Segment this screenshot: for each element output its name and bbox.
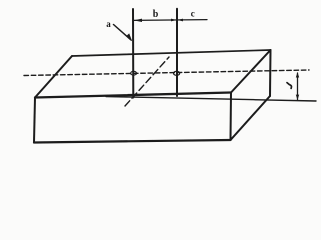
right probe pin: [176, 9, 178, 96]
box right-bottom slant edge: [231, 96, 271, 140]
box right-back vertical edge: [269, 50, 272, 96]
box left slant edge of top face: [35, 56, 72, 98]
extension line of front edge to the right: [106, 97, 316, 102]
box back-top edge: [72, 50, 271, 56]
arrowhead of b at left pin (pointing left): [134, 19, 142, 22]
box front-left vertical edge: [34, 98, 35, 143]
box front-top edge: [35, 93, 231, 98]
leader line for label a: [114, 25, 132, 41]
arrowhead of d dimension up: [296, 72, 299, 77]
arrowhead of d dimension down: [296, 95, 299, 100]
right contact circle: [174, 71, 180, 75]
arrowhead of b at right pin (pointing right): [171, 19, 176, 22]
left contact circle: [131, 71, 137, 75]
box right slant edge of top face: [231, 50, 271, 93]
arrowhead of c at right pin (pointing left): [178, 19, 183, 22]
label d (small hook mark): [287, 83, 292, 89]
dashed center line: [24, 70, 309, 76]
box front bottom edge: [34, 140, 231, 143]
left probe pin: [132, 9, 134, 98]
dimension line d (vertical, right side): [297, 73, 299, 100]
svg-text:c: c: [191, 8, 195, 18]
box front-right vertical edge: [230, 93, 233, 141]
arrowhead of leader a: [126, 33, 132, 41]
svg-text:a: a: [106, 19, 111, 29]
dimension line b and c: [134, 19, 208, 22]
svg-text:b: b: [153, 9, 159, 20]
diagonal dashed line through left probe: [125, 57, 169, 106]
